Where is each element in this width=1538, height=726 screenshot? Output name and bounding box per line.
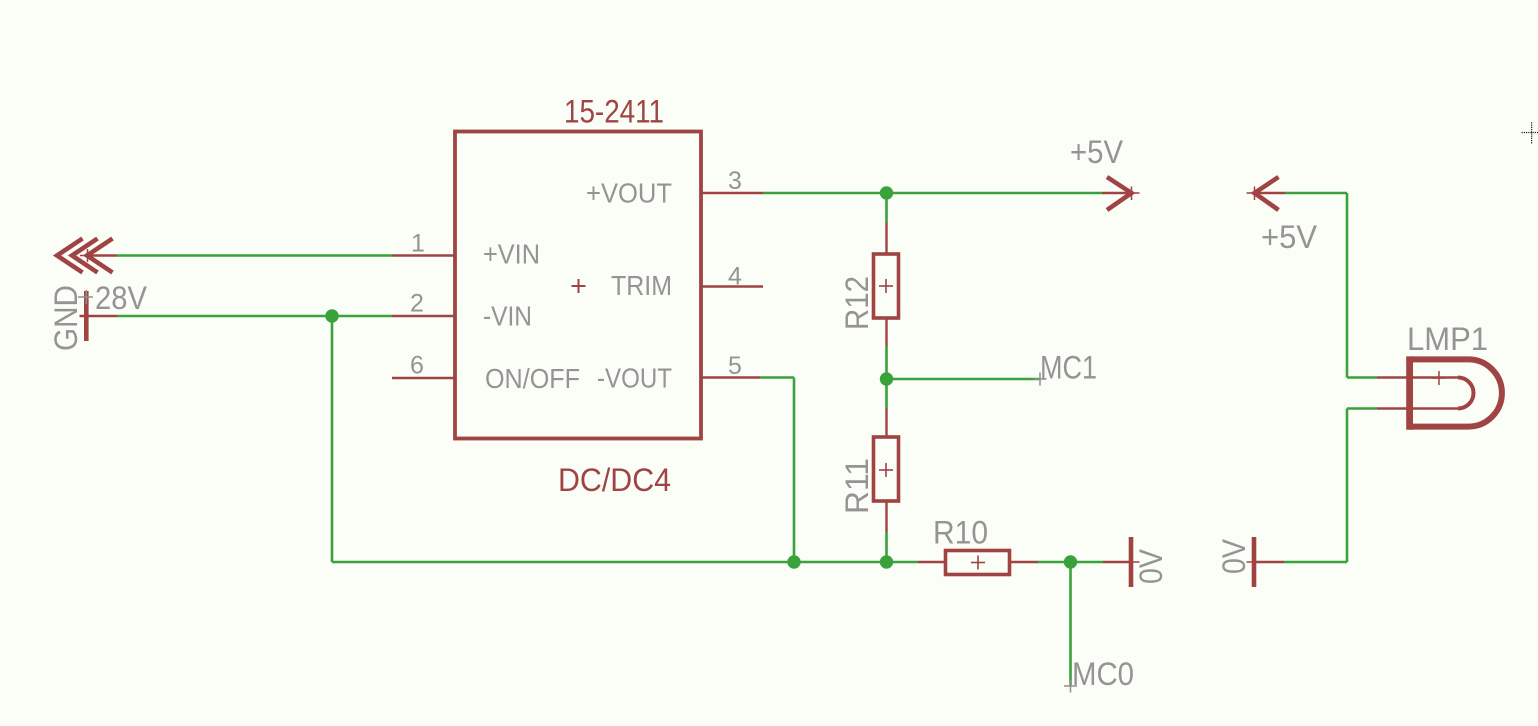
wire lamp return to 0V bbox=[1284, 561, 1347, 564]
wire R11 bottom to bottom rail bbox=[885, 532, 888, 562]
junction bottom rail left bbox=[787, 555, 800, 568]
pin 3 +VOUT bbox=[701, 192, 763, 194]
ground supply bar GND bbox=[78, 290, 117, 341]
svg-text:DC/DC4: DC/DC4 bbox=[558, 462, 671, 498]
svg-text:6: 6 bbox=[410, 352, 424, 380]
svg-text:MC0: MC0 bbox=[1072, 656, 1134, 692]
wire +5V arrow to lamp corner bbox=[1285, 192, 1347, 195]
resistor R12 bbox=[874, 223, 899, 346]
wire lamp pin 2 out bbox=[1347, 407, 1377, 410]
wire lamp return down bbox=[1346, 409, 1349, 563]
svg-text:R12: R12 bbox=[839, 276, 875, 330]
pin 6 ON/OFF bbox=[392, 377, 455, 379]
supply bar 0V near lamp bbox=[1247, 537, 1285, 587]
junction MC0 node bbox=[1064, 555, 1077, 568]
svg-text:-VOUT: -VOUT bbox=[597, 363, 672, 394]
junction MC1 node bbox=[880, 372, 893, 385]
label origin cross MC0 bbox=[1064, 680, 1077, 693]
pin 5 -VOUT bbox=[701, 376, 760, 378]
svg-text:2: 2 bbox=[410, 290, 424, 318]
svg-text:R11: R11 bbox=[839, 458, 875, 514]
svg-text:GND: GND bbox=[48, 285, 84, 351]
pin 1 +VIN bbox=[392, 254, 455, 256]
svg-text:MC1: MC1 bbox=[1040, 350, 1097, 386]
svg-text:LMP1: LMP1 bbox=[1407, 321, 1488, 357]
label origin cross MC1 bbox=[1034, 373, 1047, 386]
supply bar 0V near R10 bbox=[1103, 537, 1140, 587]
supply arrow 28V triple chevron bbox=[57, 239, 117, 273]
wire -VOUT corner down bbox=[793, 378, 796, 563]
svg-text:15-2411: 15-2411 bbox=[564, 94, 664, 130]
svg-text:+5V: +5V bbox=[1070, 134, 1124, 170]
wire junction to R12 top bbox=[885, 193, 888, 223]
svg-text:3: 3 bbox=[728, 167, 742, 195]
svg-text:-VIN: -VIN bbox=[483, 301, 532, 332]
resistor R10 bbox=[918, 551, 1038, 575]
wire MC0 net down bbox=[1069, 562, 1072, 686]
svg-text:1: 1 bbox=[411, 230, 425, 258]
op-amp box U DC/DC4 15-2411 outline bbox=[455, 132, 701, 439]
dotted origin cross top right bbox=[1522, 122, 1538, 143]
junction node A bbox=[325, 309, 338, 322]
wire bottom horizontal left bbox=[332, 561, 918, 564]
svg-text:0V: 0V bbox=[1216, 538, 1252, 574]
wire lamp feed down bbox=[1346, 193, 1349, 378]
origin cross DC/DC4 bbox=[572, 279, 586, 293]
lamp LMP1 bbox=[1377, 356, 1502, 429]
junction +5V rail bbox=[880, 186, 893, 199]
wire MC1 net bbox=[887, 378, 1041, 381]
wire +VOUT net bbox=[763, 192, 1102, 195]
supply arrow +5V left (lamp) bbox=[1247, 177, 1286, 210]
wire net 28V top to +VIN bbox=[117, 254, 392, 257]
svg-text:0V: 0V bbox=[1133, 548, 1169, 584]
svg-text:4: 4 bbox=[728, 263, 742, 291]
svg-text:+VOUT: +VOUT bbox=[586, 178, 672, 209]
svg-text:R10: R10 bbox=[933, 515, 988, 551]
svg-text:+5V: +5V bbox=[1261, 219, 1318, 255]
resistor R11 bbox=[874, 408, 899, 532]
svg-text:TRIM: TRIM bbox=[611, 270, 672, 301]
wire bottom horizontal right of R10 bbox=[1038, 561, 1103, 564]
svg-text:ON/OFF: ON/OFF bbox=[485, 363, 580, 394]
wire to lamp pin 1 bbox=[1347, 376, 1377, 379]
wire vertical from node A down bbox=[331, 316, 334, 562]
pin 4 TRIM bbox=[701, 285, 763, 287]
svg-text:5: 5 bbox=[728, 352, 742, 380]
svg-text:+VIN: +VIN bbox=[483, 239, 540, 270]
wire -VOUT to corner bbox=[760, 376, 794, 379]
wire R12 bottom to R11 top bbox=[885, 346, 888, 408]
supply arrow +5V right bbox=[1102, 177, 1140, 210]
wire net GND to -VIN bbox=[117, 315, 392, 318]
svg-text:28V: 28V bbox=[95, 280, 148, 316]
pin 2 -VIN bbox=[392, 315, 455, 317]
junction bottom rail mid bbox=[880, 555, 893, 568]
